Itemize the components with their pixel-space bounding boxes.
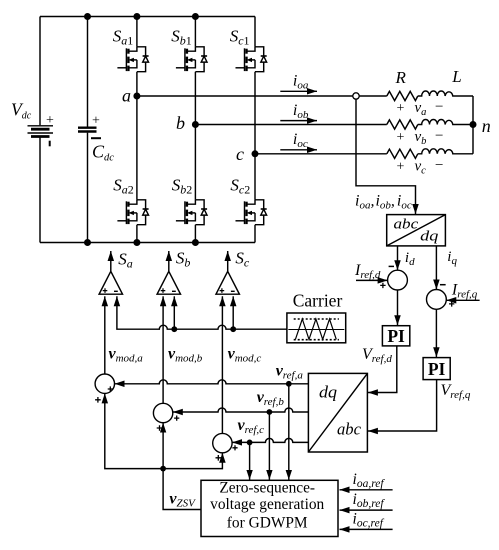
summing junction q bbox=[427, 290, 447, 310]
svg-text:PI: PI bbox=[387, 326, 405, 346]
wire Vref,q to dq-abc bbox=[368, 380, 437, 431]
svg-text:−: − bbox=[435, 128, 443, 144]
label capacitor minus bbox=[91, 137, 101, 139]
wire vmod,a to comparator a bbox=[104, 296, 106, 374]
node n bbox=[470, 121, 477, 128]
svg-text:+: + bbox=[397, 159, 405, 174]
transistor Sa1 bbox=[117, 47, 148, 72]
junction top rail at Cdc bbox=[84, 13, 91, 20]
transistor Sb2 bbox=[176, 200, 207, 225]
comparator c bbox=[216, 271, 239, 294]
svg-text:a: a bbox=[122, 85, 131, 105]
junction vref,a branch bbox=[286, 381, 292, 387]
wire vZSV to circle a bbox=[105, 393, 163, 468]
wire vref,b branch down bbox=[268, 412, 270, 480]
label plus below circle b bbox=[157, 425, 163, 431]
wire top DC rail bbox=[40, 16, 255, 18]
resistor R phase b bbox=[387, 120, 418, 129]
label plus minus comparator c bbox=[220, 288, 225, 293]
wire vZSV to circle c bbox=[163, 453, 222, 469]
wire iq output bbox=[435, 246, 437, 290]
wire vZSV to circle b bbox=[162, 423, 164, 469]
label plus at circle d bbox=[380, 283, 385, 288]
block PI d bbox=[382, 326, 409, 346]
wire Iref,q input bbox=[446, 299, 479, 301]
junction vref,c branch bbox=[247, 440, 253, 446]
svg-text:n: n bbox=[482, 116, 491, 136]
wire vref,b with hops bbox=[173, 408, 309, 412]
label plus below circle c bbox=[216, 455, 222, 461]
wire vref,c with hops bbox=[232, 438, 308, 442]
summing junction phase a bbox=[95, 374, 114, 393]
node b bbox=[192, 121, 199, 128]
current arrow ioc bbox=[280, 149, 317, 151]
resistor R phase a bbox=[387, 91, 418, 100]
wire gate signal Sa bbox=[110, 251, 112, 271]
svg-text:c: c bbox=[236, 144, 244, 164]
wire vref,c branch down bbox=[249, 442, 251, 479]
wire Vref,d to dq-abc bbox=[368, 346, 397, 393]
svg-text:L: L bbox=[451, 67, 461, 86]
junction carrier riser c bbox=[230, 326, 236, 332]
svg-text:PI: PI bbox=[428, 359, 446, 379]
transistor Sb1 bbox=[176, 47, 207, 72]
svg-text:+: + bbox=[397, 130, 405, 145]
svg-text:b: b bbox=[176, 113, 185, 133]
block dq to abc transform bbox=[308, 373, 367, 452]
label minus at circle q bbox=[440, 284, 446, 286]
wire left battery branch bbox=[39, 17, 41, 243]
battery Vdc bbox=[28, 126, 54, 137]
junction bottom rail at leg b bbox=[192, 239, 199, 246]
wire gate signal Sb bbox=[168, 251, 170, 271]
junction carrier riser b bbox=[171, 326, 177, 332]
wire carrier riser comparator b bbox=[173, 296, 175, 329]
wire phase b bbox=[195, 124, 386, 126]
wire circle d to PI d bbox=[397, 290, 399, 325]
svg-text:dq: dq bbox=[420, 228, 438, 244]
wire vmod,b to comparator b bbox=[162, 296, 164, 403]
current tap node on phase a bbox=[353, 93, 359, 99]
inductor L phase b bbox=[418, 120, 473, 125]
node a bbox=[133, 93, 140, 100]
label plus right of circle a bbox=[108, 386, 113, 391]
junction bottom rail at Cdc bbox=[84, 239, 91, 246]
wire ioc,ref input bbox=[340, 528, 393, 530]
summing junction phase b bbox=[153, 403, 172, 422]
label plus below circle a bbox=[95, 397, 101, 403]
junction top rail at leg a bbox=[133, 13, 140, 20]
wire bottom DC rail bbox=[40, 242, 255, 244]
block abc to dq transform bbox=[387, 215, 446, 246]
transistor Sc2 bbox=[236, 200, 267, 225]
wire phase a to n bbox=[472, 96, 474, 125]
wire gate signal Sc bbox=[227, 251, 229, 271]
current arrow iob bbox=[280, 120, 317, 122]
wire vref,a with hops bbox=[115, 380, 309, 384]
svg-text:+: + bbox=[397, 101, 405, 116]
block carrier generator bbox=[287, 313, 346, 343]
capacitor Cdc bbox=[78, 17, 97, 243]
wire iob,ref input bbox=[340, 509, 393, 511]
wire vmod,c to comparator c bbox=[221, 296, 223, 433]
wire leg c bbox=[254, 17, 256, 243]
wire Iref,d input bbox=[356, 279, 388, 281]
svg-text:abc: abc bbox=[394, 216, 419, 232]
wire vref,a branch down bbox=[288, 384, 290, 480]
inductor L phase c bbox=[418, 149, 473, 154]
svg-text:abc: abc bbox=[337, 420, 361, 439]
svg-text:dq: dq bbox=[319, 383, 338, 402]
label plus minus comparator b bbox=[161, 288, 166, 293]
resistor R phase c bbox=[387, 149, 418, 158]
label plus minus comparator a bbox=[103, 288, 108, 293]
label plus right of circle b bbox=[174, 416, 179, 421]
wire id output bbox=[397, 246, 399, 270]
wire carrier distribution with hops bbox=[117, 296, 287, 329]
svg-text:Carrier: Carrier bbox=[293, 291, 343, 311]
label plus right of circle c bbox=[232, 445, 237, 450]
inductor L phase a bbox=[418, 91, 473, 96]
comparator a bbox=[99, 271, 122, 294]
svg-text:for GDWPM: for GDWPM bbox=[227, 514, 308, 531]
wire ioa,ref input bbox=[340, 489, 393, 491]
wire circle q to PI q bbox=[435, 309, 437, 357]
wire carrier riser comparator c bbox=[232, 296, 234, 329]
svg-text:R: R bbox=[395, 68, 407, 87]
svg-text:Zero-sequence-: Zero-sequence- bbox=[219, 480, 315, 497]
junction vZSV riser bbox=[160, 466, 166, 472]
transistor Sc1 bbox=[236, 47, 267, 72]
transistor Sa2 bbox=[117, 200, 148, 225]
svg-text:+: + bbox=[92, 114, 100, 129]
svg-text:−: − bbox=[435, 99, 443, 115]
label battery minus bbox=[49, 141, 51, 147]
wire phase c to n bbox=[472, 125, 474, 154]
wire phase a bbox=[137, 95, 387, 97]
junction vref,b branch bbox=[267, 409, 273, 415]
block PI q bbox=[423, 358, 450, 380]
wire leg b bbox=[194, 17, 196, 243]
junction bottom rail at leg a bbox=[133, 239, 140, 246]
junction top rail at leg b bbox=[192, 13, 199, 20]
block zero-sequence-voltage generation bbox=[201, 480, 338, 536]
svg-text:voltage generation: voltage generation bbox=[210, 496, 324, 513]
node c bbox=[252, 150, 259, 157]
summing junction d bbox=[388, 270, 408, 290]
label minus at circle d bbox=[389, 265, 394, 267]
current arrow ioa bbox=[280, 90, 317, 92]
wire vZSV from block bbox=[163, 469, 201, 510]
wire phase c bbox=[255, 153, 387, 155]
summing junction phase c bbox=[213, 433, 232, 452]
svg-text:−: − bbox=[435, 158, 443, 174]
wire current measurement tap to abc-dq bbox=[356, 99, 416, 214]
comparator b bbox=[157, 271, 180, 294]
svg-text:+: + bbox=[46, 113, 54, 128]
label plus at circle q bbox=[449, 301, 454, 306]
wire leg a bbox=[136, 17, 138, 243]
